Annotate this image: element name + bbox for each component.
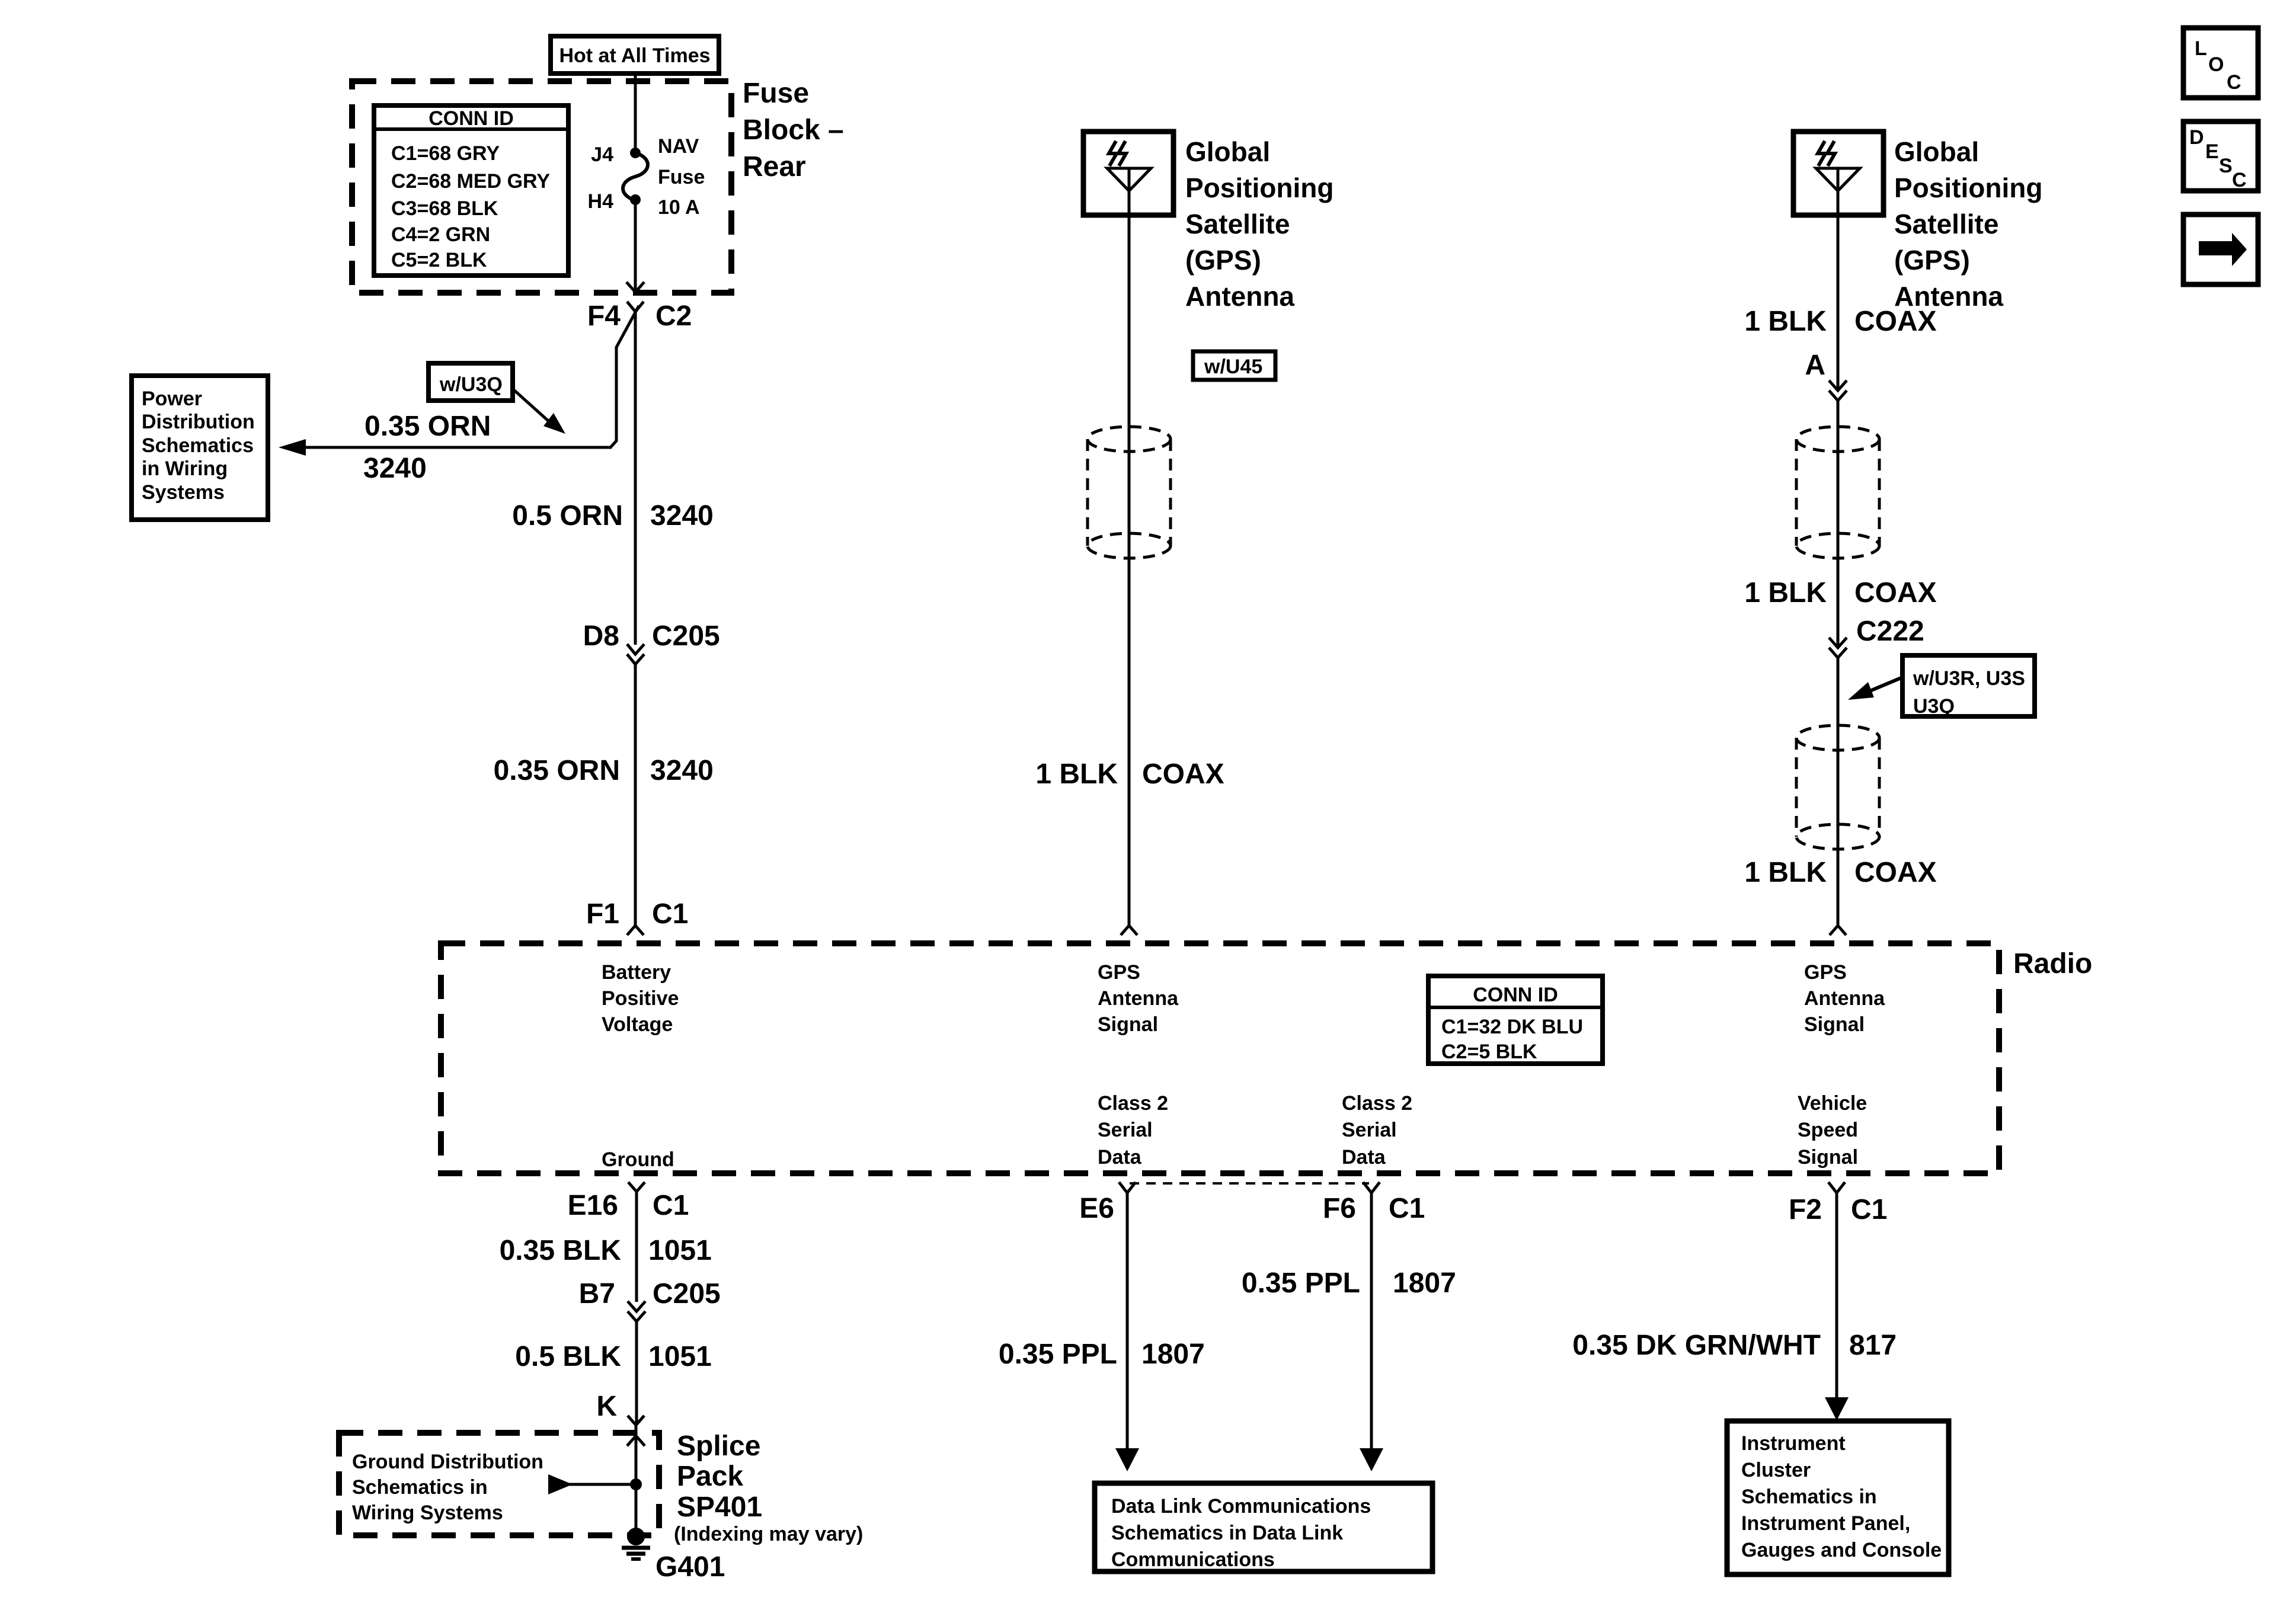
svg-text:3240: 3240: [650, 500, 714, 532]
svg-text:L: L: [2195, 37, 2207, 60]
svg-text:C4=2 GRN: C4=2 GRN: [391, 223, 490, 246]
svg-text:COAX: COAX: [1854, 306, 1937, 337]
nav box: next arrow: [2183, 215, 2258, 284]
fuse F4 NAV 10A: terminal dots and element: [630, 148, 641, 158]
svg-text:CONN ID: CONN ID: [1473, 984, 1558, 1006]
svg-text:Data Link Communications: Data Link Communications: [1111, 1495, 1371, 1518]
svg-text:O: O: [2208, 53, 2224, 76]
svg-text:D: D: [2189, 126, 2204, 149]
arrow from w/U3R box to wire: [1866, 677, 1902, 693]
svg-text:C1: C1: [1389, 1193, 1425, 1224]
connector K fork at splice pack: [628, 1416, 644, 1425]
svg-text:3240: 3240: [363, 453, 427, 484]
svg-text:F4: F4: [587, 300, 621, 332]
svg-text:Pack: Pack: [677, 1461, 743, 1492]
svg-text:NAV: NAV: [658, 135, 699, 158]
wire: vehicle speed signal: [1835, 1193, 1838, 1398]
svg-text:Wiring Systems: Wiring Systems: [352, 1502, 503, 1524]
svg-text:Battery: Battery: [602, 961, 671, 984]
svg-text:K: K: [596, 1391, 617, 1422]
svg-text:COAX: COAX: [1854, 577, 1937, 609]
connector F6 / C1 fork: [1363, 1182, 1380, 1193]
svg-text:Positioning: Positioning: [1894, 172, 2042, 203]
svg-text:0.35 ORN: 0.35 ORN: [494, 755, 620, 786]
svg-text:Rear: Rear: [743, 151, 806, 183]
wire: GPS antenna coax (mid): [1128, 215, 1131, 926]
wire: class 2 serial data (E6): [1126, 1193, 1129, 1449]
svg-text:0.35 PPL: 0.35 PPL: [999, 1339, 1117, 1370]
svg-text:H4: H4: [588, 190, 614, 213]
antenna symbol (right): [1816, 168, 1860, 191]
svg-text:SP401: SP401: [677, 1491, 762, 1523]
ground G401: [627, 1528, 645, 1545]
label box: w/U45: [1193, 351, 1275, 380]
arrowhead to instrument cluster box: [1825, 1397, 1849, 1420]
connector F4 / C2 fork: [627, 302, 644, 312]
svg-text:1 BLK: 1 BLK: [1744, 306, 1827, 337]
svg-text:Block –: Block –: [743, 114, 844, 146]
svg-text:0.35 ORN: 0.35 ORN: [364, 411, 491, 442]
inline connector cylinder (right lower): [1796, 725, 1879, 849]
svg-text:Global: Global: [1894, 136, 1979, 167]
wire: battery feed into fuse: [634, 72, 637, 152]
svg-text:COAX: COAX: [1854, 857, 1937, 888]
svg-text:Ground Distribution: Ground Distribution: [352, 1451, 543, 1473]
connector fork at radio (right GPS): [1830, 926, 1846, 935]
connector A: arrow + fork: [1829, 380, 1847, 391]
svg-text:Antenna: Antenna: [1098, 987, 1179, 1010]
svg-text:Fuse: Fuse: [743, 78, 809, 109]
junction dot at splice: [630, 1478, 642, 1490]
wire: main vertical below F4/C2: [634, 312, 637, 645]
svg-text:0.5 ORN: 0.5 ORN: [512, 500, 623, 532]
svg-text:J4: J4: [591, 143, 613, 166]
connector E6 fork: [1119, 1182, 1136, 1193]
svg-text:Schematics: Schematics: [142, 434, 254, 457]
reference box: Power Distribution Schematics in Wiring Systems: [132, 376, 268, 520]
svg-text:F1: F1: [586, 898, 619, 930]
svg-text:0.5 BLK: 0.5 BLK: [515, 1341, 621, 1372]
wire: fuse output down to box edge: [634, 200, 637, 292]
wire: class 2 serial data (F6): [1370, 1193, 1373, 1449]
svg-text:C: C: [2232, 169, 2247, 191]
svg-text:C2=68 MED GRY: C2=68 MED GRY: [391, 170, 550, 193]
splice pack dashed box: [339, 1433, 659, 1535]
connector F1 / C1 fork at radio: [627, 926, 644, 935]
svg-text:Antenna: Antenna: [1185, 281, 1294, 312]
svg-text:Positive: Positive: [602, 987, 679, 1010]
svg-text:C205: C205: [652, 620, 720, 652]
wire: branch slash and drop to 0.35 ORN feed: [610, 306, 639, 447]
svg-text:D8: D8: [583, 620, 619, 652]
inline connector cylinder (mid): [1088, 427, 1171, 558]
svg-text:w/U45: w/U45: [1204, 356, 1262, 378]
svg-text:(GPS): (GPS): [1185, 245, 1261, 276]
label box: Hot at All Times: [551, 36, 719, 73]
wire: from ground distribution into splice: [551, 1483, 636, 1486]
svg-text:Signal: Signal: [1798, 1146, 1858, 1169]
svg-text:Vehicle: Vehicle: [1798, 1092, 1867, 1115]
connector E16 / C1 fork at radio bottom: [628, 1182, 645, 1192]
svg-text:GPS: GPS: [1098, 961, 1140, 984]
svg-text:Voltage: Voltage: [602, 1013, 673, 1036]
svg-text:0.35 DK GRN/WHT: 0.35 DK GRN/WHT: [1572, 1330, 1821, 1361]
svg-text:3240: 3240: [650, 755, 714, 786]
svg-text:Serial: Serial: [1098, 1119, 1153, 1141]
svg-text:Schematics in Data Link: Schematics in Data Link: [1111, 1522, 1343, 1544]
arrowhead to data link box (F6): [1360, 1448, 1383, 1471]
inline connector cylinder (right upper): [1796, 427, 1879, 558]
svg-text:1051: 1051: [648, 1235, 712, 1266]
svg-text:A: A: [1805, 350, 1825, 381]
arrowhead into Power Distribution box: [279, 439, 306, 456]
svg-text:Data: Data: [1342, 1146, 1386, 1169]
wire: ground 0.5 BLK: [635, 1321, 638, 1425]
svg-text:C3=68 BLK: C3=68 BLK: [391, 197, 498, 220]
svg-text:Hot at All Times: Hot at All Times: [559, 44, 710, 67]
svg-text:0.35 PPL: 0.35 PPL: [1242, 1267, 1360, 1299]
svg-text:C5=2 BLK: C5=2 BLK: [391, 249, 487, 271]
svg-text:E16: E16: [568, 1190, 618, 1221]
svg-text:w/U3Q: w/U3Q: [439, 373, 503, 396]
svg-text:Power: Power: [142, 388, 202, 410]
svg-text:C2=5 BLK: C2=5 BLK: [1441, 1041, 1537, 1063]
svg-text:Serial: Serial: [1342, 1119, 1397, 1141]
open arrow at fuse block edge: [626, 282, 644, 292]
svg-text:Distribution: Distribution: [142, 411, 255, 433]
label box: w/U3Q: [428, 363, 513, 401]
svg-text:Class 2: Class 2: [1342, 1092, 1412, 1115]
connector F2 / C1 fork: [1828, 1182, 1845, 1193]
open arrow up inside splice: [627, 1436, 645, 1446]
svg-text:Instrument Panel,: Instrument Panel,: [1741, 1512, 1910, 1535]
arrow from w/U3Q to wire: [514, 390, 549, 422]
svg-text:Schematics in: Schematics in: [352, 1476, 488, 1499]
svg-text:in Wiring: in Wiring: [142, 457, 228, 480]
svg-text:1807: 1807: [1141, 1339, 1205, 1370]
thin dashed connector line E6-F6: [1130, 1182, 1369, 1185]
svg-text:C1: C1: [652, 898, 688, 930]
svg-text:Data: Data: [1098, 1146, 1142, 1169]
svg-text:CONN ID: CONN ID: [428, 107, 514, 130]
svg-text:C205: C205: [653, 1278, 721, 1310]
svg-text:C222: C222: [1856, 616, 1924, 647]
table: CONN ID (radio): [1428, 976, 1603, 1064]
svg-text:Systems: Systems: [142, 481, 225, 504]
connector fork at radio (mid GPS): [1121, 926, 1137, 935]
svg-text:Positioning: Positioning: [1185, 172, 1334, 203]
wire: coax to C222: [1837, 401, 1840, 648]
label box: w/U3R, U3S U3Q: [1902, 655, 2035, 716]
Radio: dashed component box: [441, 943, 1999, 1173]
wire: antenna lead (right): [1837, 215, 1840, 390]
svg-text:G401: G401: [655, 1551, 725, 1583]
svg-text:10 A: 10 A: [658, 196, 700, 219]
svg-text:Gauges and Console: Gauges and Console: [1741, 1539, 1942, 1561]
svg-text:0.35 BLK: 0.35 BLK: [500, 1235, 622, 1266]
svg-text:817: 817: [1849, 1330, 1897, 1361]
svg-text:1051: 1051: [648, 1341, 712, 1372]
svg-text:Ground: Ground: [602, 1148, 674, 1171]
wire: splice internal: [635, 1425, 638, 1537]
svg-text:Communications: Communications: [1111, 1548, 1275, 1571]
svg-text:1 BLK: 1 BLK: [1744, 857, 1827, 888]
svg-text:C1=32 DK BLU: C1=32 DK BLU: [1441, 1016, 1583, 1038]
nav box: DESC: [2183, 121, 2258, 191]
wire: horizontal 0.35 ORN 3240 to Power Distribution: [296, 446, 612, 449]
svg-text:F6: F6: [1323, 1193, 1356, 1224]
svg-text:Splice: Splice: [677, 1430, 760, 1462]
svg-text:Class 2: Class 2: [1098, 1092, 1168, 1115]
svg-text:C1: C1: [653, 1190, 689, 1221]
svg-text:Fuse: Fuse: [658, 166, 705, 188]
svg-text:F2: F2: [1789, 1194, 1822, 1225]
GPS antenna (right): component box: [1793, 132, 1884, 215]
fuse block: dashed outline Fuse Block - Rear: [352, 81, 731, 293]
svg-text:Satellite: Satellite: [1894, 209, 1998, 239]
svg-text:Satellite: Satellite: [1185, 209, 1290, 239]
svg-text:Cluster: Cluster: [1741, 1459, 1811, 1481]
wire: C222 to radio: [1837, 658, 1840, 926]
svg-text:1807: 1807: [1393, 1267, 1456, 1299]
svg-text:E6: E6: [1079, 1193, 1114, 1224]
svg-text:COAX: COAX: [1142, 758, 1224, 790]
svg-text:(Indexing may vary): (Indexing may vary): [674, 1523, 863, 1545]
table: CONN ID (fuse block): [374, 105, 568, 276]
reference box: Instrument Cluster Schematics: [1727, 1421, 1949, 1574]
svg-text:GPS: GPS: [1804, 961, 1847, 984]
svg-text:B7: B7: [579, 1278, 615, 1310]
svg-text:U3Q: U3Q: [1913, 695, 1955, 718]
wire: ground 0.35 BLK: [635, 1192, 638, 1302]
svg-text:Antenna: Antenna: [1804, 987, 1885, 1010]
svg-text:Radio: Radio: [2013, 948, 2092, 980]
nav box: LOC: [2183, 28, 2258, 98]
svg-text:Schematics in: Schematics in: [1741, 1486, 1877, 1508]
svg-text:(GPS): (GPS): [1894, 245, 1970, 276]
svg-text:S: S: [2219, 155, 2233, 177]
svg-text:Speed: Speed: [1798, 1119, 1858, 1141]
svg-text:C: C: [2227, 71, 2241, 94]
svg-text:E: E: [2205, 140, 2219, 163]
svg-text:Instrument: Instrument: [1741, 1432, 1846, 1455]
antenna symbol (mid): [1107, 168, 1151, 191]
svg-text:C2: C2: [655, 300, 692, 332]
svg-text:1 BLK: 1 BLK: [1035, 758, 1118, 790]
arrowhead to data link box (E6): [1115, 1448, 1139, 1471]
GPS antenna (mid): component box: [1083, 132, 1173, 215]
svg-text:C1: C1: [1851, 1194, 1887, 1225]
svg-text:w/U3R, U3S: w/U3R, U3S: [1913, 667, 2025, 690]
svg-text:Signal: Signal: [1098, 1013, 1158, 1036]
arrowhead on ground distribution feed: [548, 1474, 573, 1494]
wire: 0.35 ORN segment to radio: [634, 664, 637, 926]
reference box: Data Link Communications: [1095, 1483, 1432, 1571]
svg-text:1 BLK: 1 BLK: [1744, 577, 1827, 609]
svg-text:C1=68 GRY: C1=68 GRY: [391, 142, 500, 165]
svg-text:Global: Global: [1185, 136, 1270, 167]
svg-text:Signal: Signal: [1804, 1013, 1865, 1036]
